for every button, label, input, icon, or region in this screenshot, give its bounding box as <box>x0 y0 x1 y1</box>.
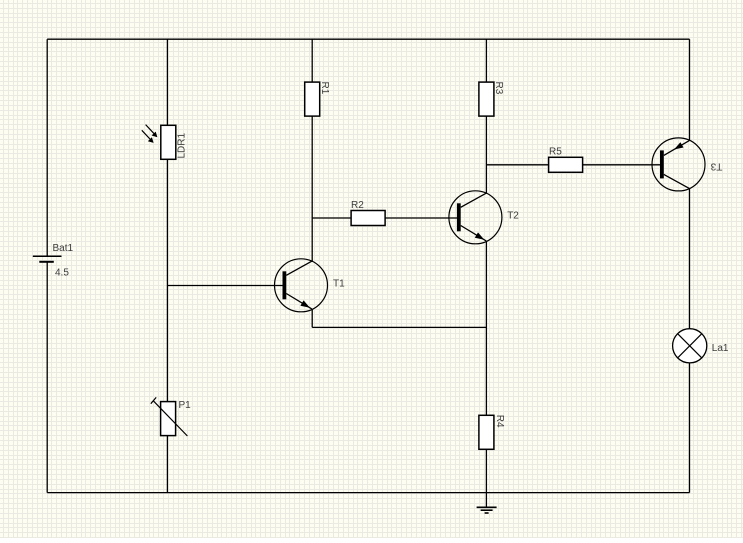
svg-text:T2: T2 <box>507 210 519 221</box>
LDR1 light arrow 2 <box>142 130 154 143</box>
svg-text:T1: T1 <box>333 279 345 290</box>
wire left rail upper (to Bat1 +) <box>46 39 48 256</box>
wire left rail lower (from Bat1 -) <box>46 262 48 493</box>
P1 trimmer diagonal arrow <box>151 397 188 436</box>
wire R4 bottom lead <box>485 449 487 492</box>
wire La1 to bottom rail <box>689 363 691 493</box>
resistor R2 body <box>351 211 385 226</box>
wire R1 top lead <box>311 39 313 82</box>
wire P1 bottom lead <box>166 435 168 492</box>
svg-text:Bat1: Bat1 <box>53 243 74 254</box>
svg-text:R3: R3 <box>493 82 504 95</box>
resistor R1 body <box>305 82 320 116</box>
wire T3 collector to La1 <box>689 188 691 328</box>
wire T1 emitter to T2 emitter net <box>312 326 486 328</box>
transistor T1 <box>275 259 328 312</box>
photoresistor LDR1 body <box>161 125 176 159</box>
svg-text:La1: La1 <box>712 343 729 354</box>
wire R5 to T3 base <box>583 164 661 166</box>
wire T2 emitter to R4 <box>485 241 487 415</box>
wire bottom rail <box>47 492 689 494</box>
wire top positive rail <box>47 38 689 40</box>
wire T1 emitter lead <box>311 309 313 327</box>
wire R2 left lead <box>312 217 351 219</box>
transistor T2 <box>449 191 502 244</box>
svg-text:R2: R2 <box>351 200 364 211</box>
svg-text:R4: R4 <box>494 415 505 428</box>
trimmer P1 body <box>161 402 176 436</box>
wire LDR1 top lead <box>166 39 168 125</box>
wire R3 to T2 collector <box>485 116 487 193</box>
svg-text:R1: R1 <box>319 82 330 95</box>
transistor T3 (PNP) <box>652 138 705 191</box>
svg-text:LDR1: LDR1 <box>176 132 187 158</box>
wire T1 base wire <box>167 285 286 287</box>
wire LDR1 to P1 <box>166 160 168 402</box>
wire right rail to T3 emitter <box>689 39 691 141</box>
svg-text:4.5: 4.5 <box>55 268 69 279</box>
svg-text:T3: T3 <box>710 161 722 172</box>
wire R3 top lead <box>485 39 487 82</box>
LDR1 light arrow 1 <box>146 125 158 138</box>
wire R2 to T2 base <box>385 217 458 219</box>
svg-text:R5: R5 <box>549 147 562 158</box>
wire R5 left lead <box>486 164 548 166</box>
resistor R4 body <box>479 415 494 449</box>
wire R1 to T1 collector <box>311 116 313 261</box>
battery Bat1 <box>33 256 62 262</box>
lamp La1 <box>673 329 707 363</box>
ground symbol <box>477 493 497 513</box>
resistor R5 body <box>549 157 583 172</box>
resistor R3 body <box>479 82 494 116</box>
svg-text:P1: P1 <box>179 400 192 411</box>
